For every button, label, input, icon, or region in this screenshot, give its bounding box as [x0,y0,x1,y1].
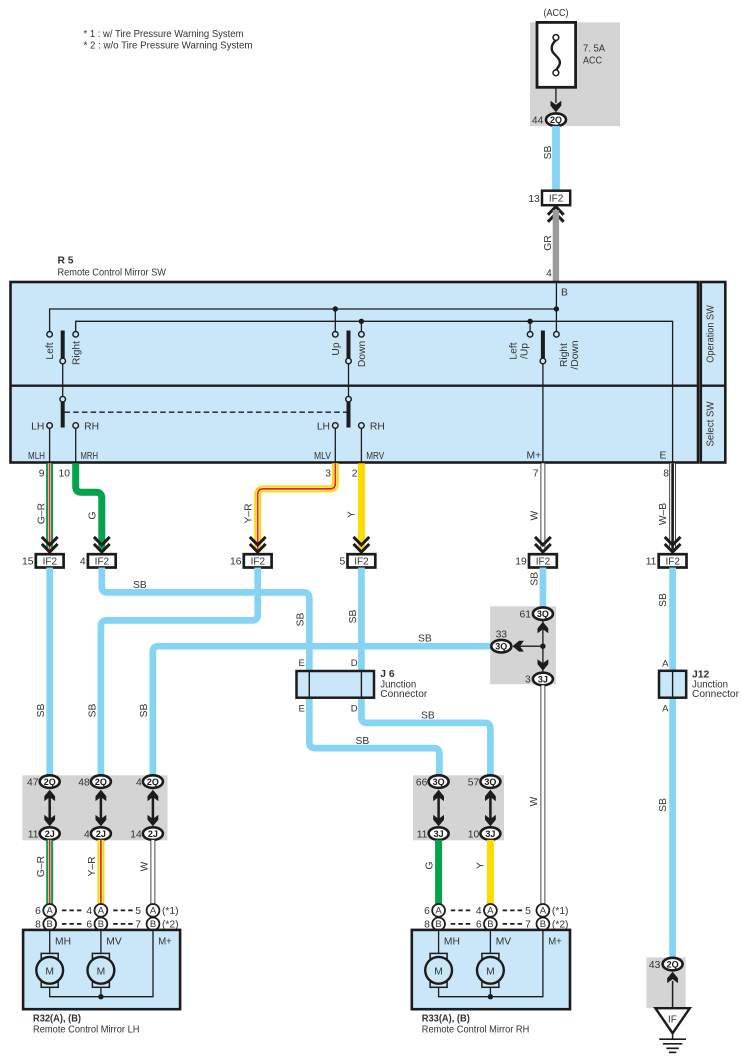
wire Y 3J to mirror RH [476,840,494,905]
svg-text:SB: SB [348,610,359,624]
svg-text:2Q: 2Q [147,777,159,787]
select contacts LH/RH [47,423,364,429]
svg-text:SB: SB [296,613,307,627]
svg-text:3J: 3J [434,829,444,839]
connector 10 3J [468,827,501,840]
wire SB J6 D to 57 3Q [361,698,490,777]
motor MH RH [425,953,452,987]
svg-text:2J: 2J [96,829,106,839]
svg-text:3: 3 [325,469,331,480]
svg-text:3Q: 3Q [537,609,549,619]
svg-text:G–R: G–R [36,856,47,877]
svg-text:7: 7 [533,469,539,480]
svg-text:MRV: MRV [366,451,384,462]
chevrons into IF2 row [42,537,58,552]
svg-text:5: 5 [525,906,531,917]
mirror R33 box [412,930,570,1009]
svg-text:R33(A), (B): R33(A), (B) [422,1013,470,1024]
svg-text:5: 5 [339,557,345,568]
svg-text:Remote Control Mirror SW: Remote Control Mirror SW [58,268,167,279]
svg-text:3J: 3J [538,674,548,684]
svg-text:Left: Left [509,342,520,359]
svg-text:4: 4 [80,557,86,568]
wire SB J12 to 43 2Q [669,698,676,959]
internal wiring R32 [50,930,153,997]
svg-text:R 5: R 5 [58,256,74,267]
svg-text:E: E [660,450,667,461]
chevron up below IF2 [548,207,564,222]
svg-text:W–B: W–B [658,503,669,525]
svg-text:2Q: 2Q [44,777,56,787]
svg-text:3Q: 3Q [484,777,496,787]
svg-text:Y–R: Y–R [87,856,98,876]
connector 33 3Q [491,630,511,653]
svg-text:2Q: 2Q [667,960,679,970]
wire fuse to connector 44 [555,87,557,103]
svg-text:A: A [98,906,105,917]
internal link lines [542,620,544,674]
svg-text:Remote Control Mirror RH: Remote Control Mirror RH [422,1024,530,1035]
svg-text:SB: SB [421,711,435,722]
connector 15 IF2 [22,554,64,567]
svg-text:MV: MV [496,937,512,948]
ground IF [655,1008,689,1052]
svg-text:RH: RH [84,421,99,432]
svg-text:IF: IF [668,1015,677,1026]
connector 43 2Q [649,958,683,971]
motor MV LH [88,953,115,987]
svg-text:LH: LH [31,421,44,432]
connector 61 3Q [520,607,553,620]
svg-text:B: B [561,288,568,299]
switch R5 label column [701,282,726,463]
wire rail 2 (to E) [76,321,673,462]
wire W-B (E pin 8) [658,463,676,549]
svg-text:SB: SB [36,704,47,718]
svg-text:13: 13 [528,194,540,205]
connector 14 2J [130,827,163,840]
switch contacts operation row [47,332,559,338]
svg-text:/Down: /Down [570,340,581,369]
svg-text:Y–R: Y–R [243,503,254,523]
svg-text:B: B [435,919,441,930]
svg-text:M: M [486,966,495,977]
wire SB J6 E to 66 3Q [309,698,439,777]
svg-text:SB: SB [356,736,370,747]
svg-text:Down: Down [357,341,368,368]
svg-text:A: A [150,906,157,917]
svg-text:MLH: MLH [28,451,45,462]
connector 16 IF2 [230,554,272,567]
wire rail 1 (B to Left/Up contacts) [50,309,557,331]
svg-text:SB: SB [133,580,147,591]
svg-text:E: E [299,658,305,669]
wire SB (ACC feed) [552,126,560,191]
svg-text:IF2: IF2 [549,194,564,205]
svg-text:4: 4 [86,906,92,917]
motor MH LH [36,953,63,987]
svg-text:2: 2 [352,469,358,480]
svg-text:A: A [540,906,547,917]
svg-text:IF2: IF2 [665,556,680,567]
svg-text:RH: RH [370,421,385,432]
svg-text:2Q: 2Q [95,777,107,787]
wire W 2J to mirror LH [139,840,155,905]
svg-text:(*1): (*1) [552,906,569,917]
svg-text:A: A [487,906,494,917]
wire G-R 2J to mirror LH [36,840,53,905]
connector 11 2J [28,827,60,840]
svg-text:2Q: 2Q [550,115,562,125]
svg-text:66: 66 [416,777,428,788]
connector block 2Q/2J gray panel (LH) [22,775,167,840]
svg-text:43: 43 [649,960,661,971]
svg-text:IF2: IF2 [43,556,58,567]
svg-text:47: 47 [27,777,39,788]
svg-text:D: D [351,703,358,714]
connector 4 2J [84,827,111,840]
svg-text:M+: M+ [158,937,172,948]
svg-text:2J: 2J [148,829,158,839]
svg-text:15: 15 [22,557,34,568]
connector 48 2Q [78,775,111,788]
svg-text:SB: SB [87,704,98,718]
svg-text:SB: SB [658,593,669,607]
wire W 3J to mirror RH M+ [529,685,545,904]
svg-text:G–R: G–R [37,503,48,524]
wire SB 16IF2 to 48 2Q [101,568,258,777]
wire SB 4IF2 to J6 E [102,568,309,672]
svg-text:Y: Y [476,862,487,869]
junction connector J12 [659,658,740,714]
svg-text:A: A [662,658,669,669]
svg-text:Right: Right [559,343,570,367]
svg-text:4: 4 [476,906,482,917]
svg-text:G: G [87,511,98,519]
fuse block gray panel [530,22,620,126]
svg-text:IF2: IF2 [536,556,551,567]
connector 47 2Q [27,775,60,788]
svg-text:3: 3 [525,675,531,686]
svg-text:Left: Left [45,342,56,359]
svg-text:11: 11 [417,829,428,840]
svg-text:8: 8 [663,469,669,480]
svg-text:IF2: IF2 [251,556,266,567]
wire W (M+ pin 7) [529,463,545,549]
svg-text:MH: MH [55,937,71,948]
svg-text:57: 57 [468,777,480,788]
svg-text:/Up: /Up [520,343,531,359]
svg-text:6: 6 [35,906,41,917]
motor MV RH [477,953,504,987]
svg-text:E: E [299,703,305,714]
connector 11 IF2 [646,554,687,567]
pass-through arrows RH block [433,790,496,827]
dashes between pins RH [451,910,522,924]
junction connector J6 [297,658,428,715]
svg-text:* 2 : w/o Tire Pressure Warnin: * 2 : w/o Tire Pressure Warning System [84,41,253,52]
pass-through arrows LH block [44,790,158,827]
svg-text:M+: M+ [548,937,562,948]
svg-text:11: 11 [646,557,657,568]
svg-text:16: 16 [230,557,242,568]
wire SB 11IF2 to J12 [669,568,676,672]
svg-text:10: 10 [59,469,71,480]
connector 19 IF2 [515,554,557,567]
switch R5 main box [11,282,699,463]
svg-text:M: M [434,966,443,977]
svg-text:7. 5A: 7. 5A [583,44,605,55]
pin circles A/B mirror RH [432,904,549,930]
svg-text:4: 4 [136,777,142,788]
svg-text:M: M [45,966,54,977]
dashes between pins LH [62,910,133,924]
wire SB 5IF2 to J6 D [358,568,365,672]
svg-text:W: W [529,796,540,806]
svg-text:B: B [98,919,104,930]
pole 3 (select common to M+) [541,331,545,359]
svg-text:MH: MH [444,937,460,948]
svg-text:A: A [662,703,669,714]
connector 11 3J [417,827,449,840]
svg-text:B: B [150,919,156,930]
svg-text:IF2: IF2 [354,556,369,567]
mirror R32 box [23,930,180,1009]
wire Y (MRV pin 2) [346,463,365,549]
svg-text:R32(A), (B): R32(A), (B) [33,1013,81,1024]
svg-text:B: B [47,919,53,930]
svg-text:4: 4 [546,268,552,279]
svg-text:Up: Up [331,342,342,355]
svg-text:MV: MV [106,937,122,948]
wire Y-R 2J to mirror LH [87,840,104,905]
wire G (MRH pin 10) [76,463,102,549]
pin circles A/B mirror LH [43,904,159,930]
svg-text:A: A [435,906,442,917]
node B wire from pin 4 [555,282,557,331]
svg-text:(ACC): (ACC) [544,8,569,19]
svg-text:Operation SW: Operation SW [706,305,717,363]
svg-text:5: 5 [135,906,141,917]
svg-text:* 1 : w/ Tire Pressure Warning: * 1 : w/ Tire Pressure Warning System [84,29,244,40]
svg-text:B: B [487,919,493,930]
wires contacts to box bottom [50,428,362,462]
svg-text:2J: 2J [45,829,55,839]
divider operation/select [11,385,699,387]
svg-text:Connector: Connector [380,689,428,700]
connector 5 IF2 [339,554,375,567]
wire G-R (MLH pin 9) [37,463,53,549]
junction connector 33/61/3 gray panel [490,606,556,684]
svg-text:4: 4 [84,829,90,840]
svg-text:GR: GR [543,235,554,250]
svg-text:M+: M+ [527,450,542,461]
svg-text:Connector: Connector [692,689,740,700]
connector 66 3Q [416,775,449,788]
SB bus wires [50,568,673,959]
svg-text:11: 11 [28,829,39,840]
svg-text:SB: SB [658,798,669,812]
svg-text:IF2: IF2 [95,556,110,567]
svg-text:Right: Right [72,341,83,365]
fuse 7.5A ACC [537,22,605,87]
connector 13 IF2 [528,191,570,206]
svg-text:B: B [540,919,546,930]
connector 44 2Q [532,113,566,126]
connector 4 IF2 [80,554,116,567]
wire SB 19IF2 to 61 3Q [540,568,547,609]
svg-text:Select SW: Select SW [706,401,717,447]
svg-text:ACC: ACC [583,56,602,67]
svg-text:48: 48 [78,777,90,788]
svg-text:LH: LH [317,421,330,432]
svg-text:Y: Y [346,511,357,518]
wire SB 15IF2 to 47 2Q [46,568,53,777]
svg-text:MLV: MLV [314,451,331,462]
mechanical link dashed [65,411,347,413]
svg-text:MRH: MRH [81,451,99,462]
svg-text:D: D [351,658,358,669]
svg-text:9: 9 [39,469,45,480]
svg-text:19: 19 [515,557,527,568]
svg-text:W: W [529,510,540,520]
svg-text:44: 44 [532,116,544,127]
pole 1 (LH/RH horizontal) [61,331,65,428]
svg-text:SB: SB [529,572,540,586]
svg-text:SB: SB [543,146,554,160]
svg-text:(*1): (*1) [162,906,179,917]
pole 2 (vertical) [347,331,351,428]
svg-text:G: G [424,861,435,869]
svg-text:6: 6 [424,906,430,917]
connector 3 3J [525,673,553,686]
svg-text:Remote Control Mirror LH: Remote Control Mirror LH [33,1024,140,1035]
wire GR [553,210,559,281]
svg-text:10: 10 [468,829,480,840]
svg-text:14: 14 [130,829,142,840]
ground branch gray panel [647,957,686,1008]
svg-text:W: W [139,861,150,871]
junction dots [554,306,559,311]
internal wiring R33 [439,930,543,997]
connector block 3Q/3J gray panel (RH) [413,775,504,840]
svg-text:SB: SB [418,634,432,645]
svg-text:M: M [97,966,106,977]
svg-text:3Q: 3Q [495,642,507,652]
connector 57 3Q [468,775,501,788]
svg-text:3J: 3J [485,829,495,839]
svg-text:3Q: 3Q [433,777,445,787]
svg-text:A: A [47,906,54,917]
connector 4 2Q [136,775,163,788]
wire Y-R (MLV pin 3) [243,463,335,549]
wire SB 33 3Q to 4 2Q [153,646,496,776]
svg-text:61: 61 [520,610,532,621]
wire G 3J to mirror RH [424,840,442,905]
svg-text:SB: SB [139,704,150,718]
